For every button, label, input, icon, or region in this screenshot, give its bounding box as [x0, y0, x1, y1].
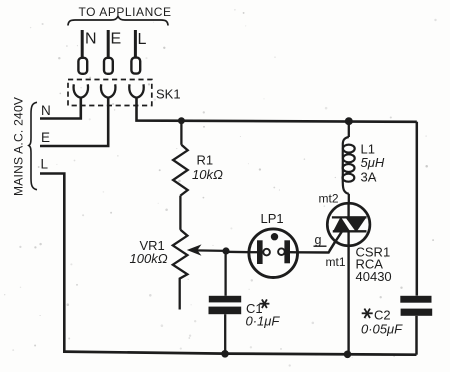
plug pin L — [131, 58, 140, 74]
svg-text:0·1μF: 0·1μF — [246, 314, 281, 329]
capacitor C1 — [209, 296, 241, 303]
asterisk C1 — [259, 299, 269, 308]
wire R1 to VR1 — [179, 196, 181, 230]
svg-text:E: E — [41, 130, 50, 145]
svg-text:5μH: 5μH — [361, 155, 385, 170]
plug pin lead E — [107, 30, 110, 58]
plug pin lead L — [134, 30, 137, 58]
svg-text:E: E — [111, 31, 122, 48]
plug pin lead N — [81, 30, 84, 58]
svg-text:SK1: SK1 — [156, 87, 181, 102]
svg-text:C2: C2 — [374, 308, 391, 323]
wire L socket to top rail — [137, 98, 417, 122]
socket contact E — [101, 84, 115, 97]
node wiper junction — [222, 247, 229, 254]
svg-text:g: g — [315, 233, 322, 247]
asterisk C2 — [362, 309, 373, 318]
socket contact N — [74, 84, 88, 97]
node C1 bottom junction — [221, 350, 229, 358]
VR1 wiper arrow — [195, 249, 226, 252]
triac CSR1 — [327, 203, 370, 250]
svg-text:TO APPLIANCE: TO APPLIANCE — [79, 5, 172, 19]
wire C1 to bottom rail — [224, 314, 226, 354]
wire bottom rail — [63, 352, 417, 355]
plug pin N — [78, 58, 87, 74]
svg-text:mt2: mt2 — [319, 192, 339, 206]
wire coil to triac — [348, 194, 350, 204]
svg-text:MAINS A.C. 240V: MAINS A.C. 240V — [12, 97, 26, 196]
node mt1 bottom junction — [344, 351, 352, 359]
svg-text:3A: 3A — [361, 170, 377, 185]
svg-text:L: L — [138, 31, 147, 48]
svg-text:LP1: LP1 — [261, 211, 284, 226]
brace under TO APPLIANCE — [68, 16, 168, 25]
wire LP1 to gate — [297, 232, 341, 253]
brace left of N E L — [29, 102, 37, 189]
wire right rail upper — [416, 122, 419, 296]
wire wiper junction to LP1 — [226, 251, 250, 254]
wire mains L to left rail — [40, 174, 64, 352]
inductor L1 — [343, 137, 355, 194]
node R1 top junction — [178, 117, 185, 124]
plug pin E — [104, 58, 113, 74]
wire N socket to mains N — [40, 98, 81, 119]
potentiometer VR1 — [173, 230, 188, 310]
svg-text:40430: 40430 — [356, 269, 392, 284]
wire triac mt1 to bottom rail — [347, 231, 349, 354]
wire E socket to mains E — [40, 98, 108, 146]
svg-text:100kΩ: 100kΩ — [130, 251, 168, 266]
svg-text:L: L — [41, 157, 49, 172]
capacitor C2 — [400, 296, 431, 303]
resistor R1 — [173, 145, 188, 196]
svg-text:0·05μF: 0·05μF — [361, 322, 403, 337]
svg-text:R1: R1 — [197, 153, 214, 168]
wire top rail to R1 — [180, 121, 182, 145]
node L1 top junction — [345, 117, 353, 125]
wire right rail lower — [415, 316, 418, 355]
socket SK1 dashed outline — [68, 80, 152, 106]
lamp LP1 — [249, 229, 298, 278]
svg-text:10kΩ: 10kΩ — [192, 167, 223, 182]
wire wiper junction to C1 — [224, 251, 226, 296]
wire L1 junction to coil — [348, 121, 350, 137]
svg-text:N: N — [41, 103, 51, 118]
svg-text:N: N — [85, 31, 97, 48]
socket contact L — [129, 84, 143, 97]
svg-text:mt1: mt1 — [326, 255, 346, 269]
